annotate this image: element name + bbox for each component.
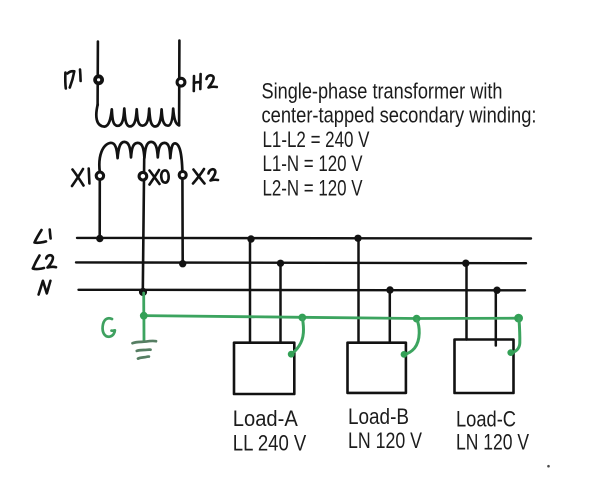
ground symbol: [133, 341, 157, 359]
wire X1 to L1: [98, 172, 101, 239]
wire LoadB right: [389, 290, 392, 343]
svg-text:center-tapped secondary windin: center-tapped secondary winding:: [262, 103, 537, 128]
svg-text:Load-A: Load-A: [233, 406, 298, 431]
label H1: [65, 70, 80, 89]
transformer primary winding: [96, 105, 179, 127]
label N: [39, 281, 51, 295]
svg-text:Load-B: Load-B: [348, 404, 409, 429]
junction X2-L2: [179, 260, 186, 267]
bus L2: [76, 261, 526, 264]
svg-text:L1-L2 = 240 V: L1-L2 = 240 V: [263, 127, 370, 152]
ground bus G: [144, 316, 519, 319]
load C box: [455, 340, 514, 394]
transformer secondary winding: [99, 142, 182, 172]
green junction at X0/N: [140, 312, 148, 320]
wire LoadB left: [357, 238, 360, 342]
terminal H1: [95, 76, 102, 83]
junction LoadA-L2: [277, 260, 284, 267]
label G: [103, 318, 115, 337]
label X0: [150, 170, 169, 185]
bus L1: [77, 237, 531, 240]
green junction LoadC: [514, 314, 523, 323]
svg-text:L1-N = 120 V: L1-N = 120 V: [263, 151, 363, 176]
label X2: [193, 169, 218, 184]
green junction LoadA: [298, 314, 306, 322]
wire LoadA left: [249, 239, 252, 343]
wire LoadC right: [495, 290, 498, 345]
wire LoadC left: [465, 263, 468, 339]
ground hook LoadC: [511, 319, 520, 353]
ground hook LoadA: [291, 319, 303, 354]
stray dot: [547, 465, 550, 468]
label X1: [72, 169, 89, 187]
label L2: [33, 255, 56, 269]
load A box: [234, 343, 294, 394]
label L1: [35, 230, 51, 243]
wire X2 to L2: [181, 172, 184, 264]
svg-text:Load-C: Load-C: [456, 406, 516, 431]
label H2: [194, 74, 217, 91]
ground hook LoadB: [404, 320, 419, 355]
wire X0 to N: [143, 159, 144, 292]
terminal X0: [139, 172, 147, 180]
wire H1 primary lead: [96, 42, 99, 106]
terminal X2: [179, 172, 186, 179]
green junction LoadB: [413, 315, 421, 323]
terminal X1: [96, 172, 103, 179]
load B box: [348, 343, 406, 393]
terminal H2: [177, 78, 185, 86]
ground wire from N: [142, 293, 145, 316]
ground lead: [142, 316, 145, 341]
junction LoadB-L1: [354, 235, 361, 242]
junction LoadC-L2: [462, 260, 469, 267]
bus N: [79, 289, 526, 292]
svg-text:Single-phase transformer with: Single-phase transformer with: [262, 79, 503, 104]
junction X1-L1: [96, 235, 103, 242]
junction LoadA-L1: [247, 235, 254, 242]
wire H2 primary lead: [178, 41, 181, 126]
junction X0-N: [139, 288, 147, 296]
svg-text:L2-N = 120 V: L2-N = 120 V: [263, 175, 363, 200]
svg-text:LN 120 V: LN 120 V: [348, 428, 422, 453]
svg-text:LL 240 V: LL 240 V: [233, 430, 307, 455]
junction LoadB-N: [386, 286, 393, 293]
wire LoadA right: [279, 263, 282, 342]
svg-text:LN 120 V: LN 120 V: [456, 429, 529, 454]
junction LoadC-N: [493, 287, 500, 294]
